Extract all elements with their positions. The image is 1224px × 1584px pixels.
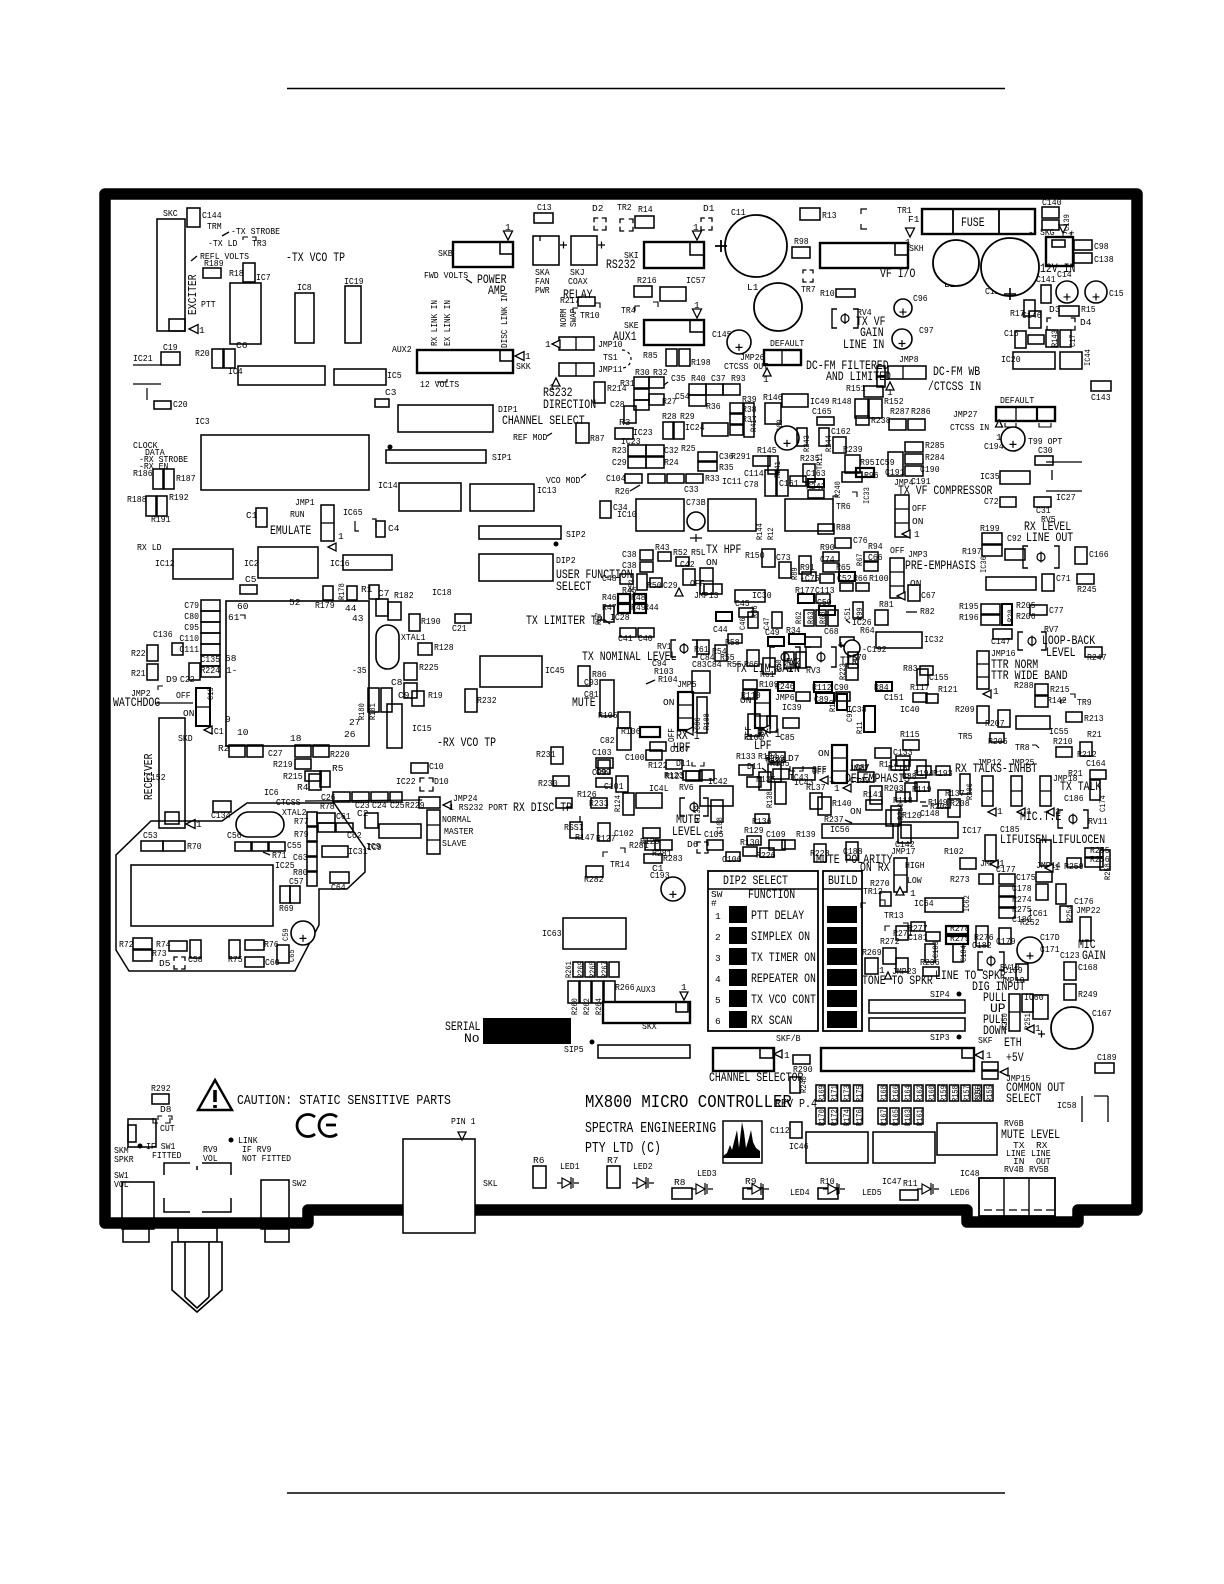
svg-text:D2: D2 bbox=[592, 203, 604, 214]
svg-text:ON: ON bbox=[740, 695, 751, 706]
svg-text:C68: C68 bbox=[824, 626, 839, 637]
svg-text:IC36: IC36 bbox=[979, 556, 989, 573]
svg-text:IC7: IC7 bbox=[256, 272, 271, 283]
svg-text:LOW: LOW bbox=[907, 875, 922, 886]
svg-text:C35: C35 bbox=[671, 373, 686, 384]
svg-text:1: 1 bbox=[338, 531, 344, 542]
svg-text:R57: R57 bbox=[594, 612, 604, 625]
mounting foot under RV9 pot bbox=[178, 1228, 217, 1242]
svg-text:SIP2: SIP2 bbox=[566, 529, 586, 540]
svg-text:R283: R283 bbox=[663, 853, 683, 864]
svg-text:1: 1 bbox=[681, 982, 687, 993]
svg-text:SWAP: SWAP bbox=[569, 309, 579, 327]
svg-text:R26: R26 bbox=[615, 486, 630, 497]
svg-text:C17D: C17D bbox=[1040, 932, 1060, 943]
svg-text:R266: R266 bbox=[615, 982, 635, 993]
svg-text:TX HPF: TX HPF bbox=[706, 542, 741, 557]
svg-text:C40: C40 bbox=[638, 633, 653, 644]
svg-text:R151: R151 bbox=[846, 383, 866, 394]
svg-text:R72: R72 bbox=[119, 939, 134, 950]
svg-text:3: 3 bbox=[715, 953, 721, 964]
capacitor C62 bbox=[318, 823, 335, 832]
svg-text:D7: D7 bbox=[788, 753, 799, 764]
svg-text:TR11: TR11 bbox=[815, 453, 825, 470]
svg-text:IC60: IC60 bbox=[1024, 992, 1044, 1003]
svg-text:R19: R19 bbox=[428, 690, 443, 701]
svg-text:R88: R88 bbox=[836, 522, 851, 533]
svg-text:R22: R22 bbox=[131, 648, 146, 659]
svg-text:SKB: SKB bbox=[438, 248, 453, 259]
capacitor C71 bbox=[1042, 574, 1054, 591]
svg-text:R33: R33 bbox=[705, 473, 720, 484]
svg-text:R213: R213 bbox=[1084, 713, 1104, 724]
svg-text:R10: R10 bbox=[820, 288, 835, 299]
svg-text:TRM: TRM bbox=[207, 221, 222, 232]
svg-text:R269: R269 bbox=[862, 947, 882, 958]
svg-text:C37: C37 bbox=[711, 373, 726, 384]
svg-text:LED6: LED6 bbox=[950, 1187, 970, 1198]
resistor R203c bbox=[1002, 604, 1012, 625]
svg-text:C151: C151 bbox=[884, 692, 904, 703]
svg-text:SKL: SKL bbox=[483, 1178, 498, 1189]
svg-text:TR6: TR6 bbox=[836, 501, 851, 512]
svg-text:C21: C21 bbox=[452, 623, 467, 634]
resistor R214 bbox=[594, 382, 605, 403]
svg-text:C46: C46 bbox=[738, 617, 748, 630]
svg-text:CTCSS OUT: CTCSS OUT bbox=[724, 361, 768, 372]
svg-text:C32: C32 bbox=[664, 445, 679, 456]
svg-text:1: 1 bbox=[914, 529, 920, 540]
svg-text:R21: R21 bbox=[1068, 768, 1083, 779]
resistor R220 bbox=[295, 745, 311, 757]
svg-text:F1: F1 bbox=[908, 214, 920, 225]
bottom rule line bbox=[287, 1492, 1005, 1494]
ic IC31 bbox=[322, 846, 348, 857]
svg-text:R285: R285 bbox=[925, 440, 945, 451]
connector SKA fan pwr bbox=[533, 236, 559, 265]
svg-text:R196: R196 bbox=[959, 612, 979, 623]
svg-text:C63: C63 bbox=[293, 852, 308, 863]
svg-text:FUNCTION: FUNCTION bbox=[748, 887, 795, 902]
svg-text:ON: ON bbox=[663, 697, 674, 708]
svg-text:IC11: IC11 bbox=[722, 476, 742, 487]
svg-text:C186: C186 bbox=[1064, 793, 1084, 804]
svg-text:R209: R209 bbox=[955, 704, 975, 715]
svg-text:BUILD: BUILD bbox=[828, 873, 858, 888]
svg-text:IC47: IC47 bbox=[882, 1176, 902, 1187]
svg-text:OFF: OFF bbox=[890, 545, 905, 556]
svg-text:CTCSS IN: CTCSS IN bbox=[950, 422, 989, 433]
svg-text:R68: R68 bbox=[818, 611, 828, 624]
svg-text:DEFAULT: DEFAULT bbox=[1000, 395, 1035, 406]
svg-text:R291: R291 bbox=[731, 451, 751, 462]
ic IC46 second bbox=[873, 1132, 935, 1163]
svg-text:AND LIMITED: AND LIMITED bbox=[826, 369, 891, 384]
svg-text:1: 1 bbox=[199, 325, 205, 336]
svg-text:AUX3: AUX3 bbox=[636, 984, 656, 995]
volume pot shaft bbox=[172, 1242, 222, 1312]
capacitor C3 bbox=[375, 399, 389, 407]
svg-text:C14: C14 bbox=[1057, 269, 1072, 280]
svg-text:R186: R186 bbox=[133, 468, 153, 479]
svg-text:R121: R121 bbox=[938, 684, 958, 695]
svg-text:R117: R117 bbox=[910, 682, 930, 693]
svg-text:R55: R55 bbox=[720, 652, 735, 663]
capacitor C4 bbox=[376, 521, 385, 537]
svg-text:JMP27: JMP27 bbox=[953, 409, 978, 420]
label LINK IF RV9 NOT FITTED bbox=[229, 1138, 234, 1143]
connector SKJ coax relay bbox=[571, 236, 597, 265]
diode LED4 bbox=[747, 1183, 769, 1195]
svg-text:R249: R249 bbox=[1078, 989, 1098, 1000]
svg-text:REV P.4: REV P.4 bbox=[775, 1097, 817, 1111]
svg-text:C7: C7 bbox=[378, 588, 389, 599]
svg-text:C167: C167 bbox=[1092, 1008, 1112, 1019]
svg-text:IC44: IC44 bbox=[1083, 349, 1093, 366]
svg-text:C10: C10 bbox=[429, 761, 444, 772]
svg-text:R15: R15 bbox=[1081, 304, 1096, 315]
svg-text:R124: R124 bbox=[613, 795, 623, 812]
svg-text:R220: R220 bbox=[330, 749, 350, 760]
svg-text:C72: C72 bbox=[984, 496, 999, 507]
svg-text:R258: R258 bbox=[1103, 863, 1113, 880]
svg-text:R272: R272 bbox=[880, 936, 900, 947]
svg-text:C111: C111 bbox=[179, 644, 199, 655]
svg-text:LED2: LED2 bbox=[633, 1161, 653, 1172]
svg-text:FITTED: FITTED bbox=[152, 1150, 182, 1161]
svg-text:C175: C175 bbox=[1016, 872, 1036, 883]
svg-text:R146: R146 bbox=[763, 392, 783, 403]
svg-text:IC25: IC25 bbox=[275, 860, 295, 871]
svg-text:IC42: IC42 bbox=[708, 776, 728, 787]
svg-text:RX SCAN: RX SCAN bbox=[751, 1013, 792, 1028]
svg-text:C147: C147 bbox=[991, 636, 1011, 647]
svg-text:R282: R282 bbox=[584, 874, 604, 885]
svg-text:R230: R230 bbox=[538, 778, 558, 789]
sip resistor SIP1 bbox=[388, 445, 393, 450]
svg-text:IC23: IC23 bbox=[621, 436, 641, 447]
svg-text:1-: 1- bbox=[226, 665, 237, 676]
svg-text:C56: C56 bbox=[227, 830, 242, 841]
ic IC5 bbox=[334, 369, 386, 385]
svg-text:C8: C8 bbox=[391, 677, 403, 688]
ic IC45 bbox=[480, 656, 542, 687]
svg-text:R18: R18 bbox=[229, 268, 244, 279]
svg-text:R56: R56 bbox=[750, 605, 760, 618]
resistor R238 bbox=[856, 416, 869, 425]
svg-text:VF I/O: VF I/O bbox=[880, 266, 916, 281]
svg-text:TR7: TR7 bbox=[801, 284, 816, 295]
resistor R143 bbox=[1028, 335, 1044, 344]
svg-text:OFF: OFF bbox=[812, 764, 827, 775]
svg-text:R195: R195 bbox=[959, 601, 979, 612]
svg-text:RV6: RV6 bbox=[679, 782, 694, 793]
svg-text:TONE TO SPKR: TONE TO SPKR bbox=[862, 973, 933, 988]
svg-text:R95: R95 bbox=[860, 457, 875, 468]
fuse F1 bbox=[922, 209, 1035, 234]
svg-text:R284: R284 bbox=[925, 452, 945, 463]
svg-text:C20: C20 bbox=[173, 399, 188, 410]
svg-text:HIGH: HIGH bbox=[905, 860, 925, 871]
svg-text:C181: C181 bbox=[908, 932, 928, 943]
capacitor C192 bbox=[844, 640, 860, 656]
svg-text:C28: C28 bbox=[610, 399, 625, 410]
svg-text:1: 1 bbox=[505, 222, 511, 233]
ic IC32 bbox=[876, 632, 922, 648]
ic IC49 bbox=[782, 394, 808, 407]
svg-text:R100: R100 bbox=[869, 573, 889, 584]
svg-text:LEVEL: LEVEL bbox=[1046, 645, 1076, 660]
svg-text:PIN 1: PIN 1 bbox=[451, 1116, 476, 1127]
svg-text:R78: R78 bbox=[320, 801, 335, 812]
svg-text:1: 1 bbox=[997, 806, 1003, 817]
svg-text:NOT FITTED: NOT FITTED bbox=[242, 1153, 291, 1164]
svg-text:LEVEL: LEVEL bbox=[672, 824, 702, 839]
svg-text:R187: R187 bbox=[176, 473, 196, 484]
capacitor C36 bbox=[698, 452, 717, 461]
svg-text:R123: R123 bbox=[664, 770, 684, 781]
svg-text:R83: R83 bbox=[903, 663, 918, 674]
trimpot RV11 bbox=[1058, 810, 1088, 828]
svg-text:TR13: TR13 bbox=[884, 910, 904, 921]
svg-text:JMP13: JMP13 bbox=[694, 590, 719, 601]
svg-text:1: 1 bbox=[694, 300, 700, 311]
svg-text:R25: R25 bbox=[681, 443, 696, 454]
svg-text:D1: D1 bbox=[703, 203, 715, 214]
svg-text:JMP5: JMP5 bbox=[677, 679, 697, 690]
svg-text:C144: C144 bbox=[202, 210, 222, 221]
svg-text:10: 10 bbox=[237, 727, 249, 738]
svg-text:RUN: RUN bbox=[290, 509, 305, 520]
svg-text:REPEATER ON: REPEATER ON bbox=[751, 971, 816, 986]
svg-text:R179: R179 bbox=[315, 600, 335, 611]
svg-text:LED4: LED4 bbox=[790, 1187, 810, 1198]
svg-text:DIP2: DIP2 bbox=[556, 555, 576, 566]
svg-text:R229: R229 bbox=[405, 800, 425, 811]
svg-text:R128: R128 bbox=[434, 642, 454, 653]
svg-text:ON: ON bbox=[912, 516, 923, 527]
svg-text:REF MOD: REF MOD bbox=[513, 432, 548, 443]
svg-text:C85: C85 bbox=[780, 732, 795, 743]
spectrum icon bbox=[723, 1121, 762, 1163]
svg-text:R188: R188 bbox=[127, 494, 147, 505]
svg-text:C97: C97 bbox=[919, 325, 934, 336]
svg-text:C54: C54 bbox=[675, 391, 690, 402]
svg-text:C102: C102 bbox=[614, 828, 634, 839]
svg-text:R288: R288 bbox=[1014, 680, 1034, 691]
svg-text:VCO MOD: VCO MOD bbox=[546, 475, 581, 486]
svg-text:R203: R203 bbox=[884, 783, 904, 794]
svg-text:PTT: PTT bbox=[201, 299, 216, 310]
svg-text:TX TIMER ON: TX TIMER ON bbox=[751, 950, 816, 965]
svg-text:IC27: IC27 bbox=[1056, 492, 1076, 503]
svg-text:FWD VOLTS: FWD VOLTS bbox=[424, 270, 468, 281]
svg-text:LED5: LED5 bbox=[862, 1187, 882, 1198]
svg-text:R138: R138 bbox=[765, 791, 775, 808]
svg-text:IC28: IC28 bbox=[610, 612, 630, 623]
mounting foot under SW1 bbox=[123, 1228, 149, 1242]
svg-text:CUT: CUT bbox=[160, 1123, 175, 1134]
svg-text:EXCITER: EXCITER bbox=[186, 274, 200, 315]
svg-text:D5: D5 bbox=[159, 958, 171, 969]
svg-text:GAIN: GAIN bbox=[1082, 948, 1106, 963]
sip resistor SIP5 bbox=[590, 1040, 595, 1045]
svg-text:D10: D10 bbox=[434, 776, 449, 787]
svg-text:SELECT: SELECT bbox=[556, 579, 592, 594]
capacitor C166 bbox=[1075, 547, 1087, 564]
svg-text:C182: C182 bbox=[972, 940, 992, 951]
svg-text:DIRECTION: DIRECTION bbox=[543, 397, 596, 412]
svg-text:SPECTRA ENGINEERING: SPECTRA ENGINEERING bbox=[585, 1121, 716, 1137]
svg-text:68: 68 bbox=[225, 653, 237, 664]
svg-text:6: 6 bbox=[715, 1016, 721, 1027]
resistor R13 bbox=[800, 208, 820, 220]
resistor R213 bbox=[1066, 712, 1082, 722]
svg-text:IC14: IC14 bbox=[378, 480, 398, 491]
svg-text:C48: C48 bbox=[602, 573, 617, 584]
svg-text:R70: R70 bbox=[187, 841, 202, 852]
svg-text:R36: R36 bbox=[706, 401, 721, 412]
svg-text:C29: C29 bbox=[663, 580, 678, 591]
svg-text:C73B: C73B bbox=[686, 497, 706, 508]
svg-text:IC18: IC18 bbox=[432, 587, 452, 598]
table BUILD column bbox=[823, 871, 862, 1031]
svg-text:TR14: TR14 bbox=[610, 859, 630, 870]
svg-text:LPF: LPF bbox=[754, 738, 772, 753]
svg-text:CHANNEL SELECT: CHANNEL SELECT bbox=[502, 413, 585, 428]
svg-text:DC-FM WB: DC-FM WB bbox=[933, 364, 980, 379]
svg-text:RV4B: RV4B bbox=[1004, 1164, 1024, 1175]
svg-text:IC13: IC13 bbox=[537, 485, 557, 496]
svg-text:IC35: IC35 bbox=[980, 471, 1000, 482]
svg-text:L1: L1 bbox=[747, 282, 759, 293]
svg-text:R217: R217 bbox=[560, 295, 580, 306]
svg-text:TX TALK: TX TALK bbox=[1060, 779, 1101, 794]
svg-text:C123: C123 bbox=[1060, 950, 1080, 961]
svg-text:ON RX: ON RX bbox=[860, 860, 890, 875]
svg-text:C105: C105 bbox=[704, 829, 724, 840]
svg-text:SIP4: SIP4 bbox=[930, 989, 950, 1000]
svg-text:EMULATE: EMULATE bbox=[270, 523, 311, 538]
jumper JMP21 rx lpf bbox=[755, 690, 770, 728]
svg-text:C189: C189 bbox=[1097, 1052, 1117, 1063]
svg-text:18: 18 bbox=[290, 733, 302, 744]
svg-text:IC15: IC15 bbox=[412, 723, 432, 734]
svg-text:R96: R96 bbox=[864, 470, 879, 481]
capacitor C6 bbox=[224, 349, 235, 368]
svg-text:1: 1 bbox=[1035, 1023, 1041, 1034]
svg-text:-: - bbox=[1028, 227, 1034, 238]
svg-text:TR4: TR4 bbox=[621, 305, 636, 316]
svg-text:C161: C161 bbox=[779, 478, 799, 489]
ic IC41 bbox=[700, 786, 733, 806]
svg-text:IC4: IC4 bbox=[228, 366, 243, 377]
svg-text:ON: ON bbox=[706, 557, 717, 568]
CTCSS daughter board outline bbox=[116, 803, 365, 971]
svg-text:1: 1 bbox=[1054, 862, 1060, 873]
svg-text:C79: C79 bbox=[184, 600, 199, 611]
svg-text:OFF: OFF bbox=[690, 578, 705, 589]
svg-text:-TX STROBE: -TX STROBE bbox=[231, 226, 280, 237]
svg-text:C96: C96 bbox=[913, 293, 928, 304]
svg-text:DEFAULT: DEFAULT bbox=[770, 338, 805, 349]
svg-text:R254: R254 bbox=[1065, 905, 1075, 922]
svg-text:TR2: TR2 bbox=[617, 202, 632, 213]
jumper JMP10 bbox=[559, 337, 594, 350]
trimpot RV10 bbox=[978, 952, 1004, 970]
svg-text:SELECT: SELECT bbox=[1006, 1091, 1042, 1106]
svg-text:C27: C27 bbox=[268, 748, 283, 759]
svg-text:IC30: IC30 bbox=[752, 590, 772, 601]
svg-text:C133: C133 bbox=[893, 747, 913, 758]
svg-text:R204: R204 bbox=[930, 801, 950, 812]
resistor R69 bbox=[280, 886, 290, 903]
svg-text:C38: C38 bbox=[622, 560, 637, 571]
connector SKL bbox=[403, 1139, 475, 1233]
svg-text:R290: R290 bbox=[793, 1064, 813, 1075]
svg-text:R102: R102 bbox=[944, 846, 964, 857]
svg-text:26: 26 bbox=[344, 729, 356, 740]
svg-text:C30: C30 bbox=[1038, 445, 1053, 456]
svg-text:C112: C112 bbox=[770, 1125, 790, 1136]
svg-text:R197: R197 bbox=[962, 546, 982, 557]
svg-text:C106: C106 bbox=[722, 854, 742, 865]
capacitor C64 bbox=[330, 872, 349, 883]
svg-text:R198: R198 bbox=[691, 357, 711, 368]
svg-text:R104: R104 bbox=[658, 674, 678, 685]
svg-text:MASTER: MASTER bbox=[444, 826, 474, 837]
svg-text:SKC: SKC bbox=[163, 208, 178, 219]
svg-text:TR9: TR9 bbox=[1077, 697, 1092, 708]
svg-text:R35: R35 bbox=[719, 462, 734, 473]
svg-text:C44: C44 bbox=[713, 624, 728, 635]
svg-text:4: 4 bbox=[715, 974, 721, 985]
svg-text:JMP8: JMP8 bbox=[899, 354, 919, 365]
svg-text:R14: R14 bbox=[638, 204, 653, 215]
svg-text:C16: C16 bbox=[1004, 328, 1019, 339]
connector SKC bbox=[157, 219, 185, 331]
svg-text:1: 1 bbox=[829, 774, 835, 785]
svg-text:DISC LINK IN: DISC LINK IN bbox=[500, 293, 510, 348]
svg-text:C110: C110 bbox=[179, 633, 199, 644]
svg-text:R145: R145 bbox=[757, 445, 777, 456]
PCB board outline bbox=[105, 194, 1137, 1223]
svg-text:C38: C38 bbox=[622, 549, 637, 560]
svg-text:1: 1 bbox=[715, 911, 721, 922]
svg-text:R11: R11 bbox=[903, 1178, 918, 1189]
capacitor C143 bbox=[1091, 381, 1111, 391]
capacitor C34 bbox=[600, 501, 611, 518]
row C23 C24 C25 bbox=[333, 792, 350, 802]
svg-text:R140: R140 bbox=[832, 798, 852, 809]
svg-text:61: 61 bbox=[228, 612, 240, 623]
capacitor C15 bbox=[1085, 281, 1107, 303]
svg-text:TR8: TR8 bbox=[1015, 742, 1030, 753]
svg-text:IC10: IC10 bbox=[617, 509, 637, 520]
svg-text:R143: R143 bbox=[1050, 330, 1060, 347]
svg-text:C4: C4 bbox=[388, 523, 400, 534]
svg-text:TS1: TS1 bbox=[603, 352, 618, 363]
ic IC34 big bbox=[785, 499, 833, 531]
svg-text:C136: C136 bbox=[153, 629, 173, 640]
svg-text:IC45: IC45 bbox=[545, 665, 565, 676]
svg-text:SKF: SKF bbox=[978, 1035, 993, 1046]
svg-text:SKH: SKH bbox=[909, 243, 924, 254]
svg-text:C114: C114 bbox=[744, 468, 764, 479]
svg-text:R127: R127 bbox=[596, 833, 616, 844]
svg-text:R133: R133 bbox=[736, 751, 756, 762]
svg-text:RS232: RS232 bbox=[606, 257, 636, 272]
